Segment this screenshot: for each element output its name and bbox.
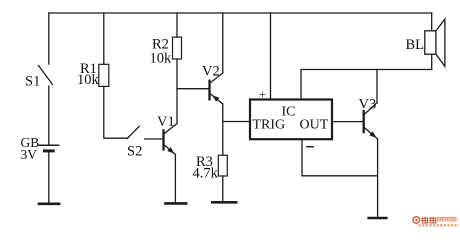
svg-text:BL: BL <box>406 37 425 53</box>
svg-text:OUT: OUT <box>300 117 329 132</box>
svg-text:+: + <box>259 87 266 102</box>
svg-text:V3: V3 <box>359 97 377 113</box>
svg-text:S1: S1 <box>25 74 40 90</box>
svg-text:4.7k: 4.7k <box>193 166 219 182</box>
svg-text:V1: V1 <box>157 114 175 130</box>
svg-text:TRIG: TRIG <box>253 117 286 132</box>
svg-text:S2: S2 <box>127 144 142 160</box>
svg-text:10k: 10k <box>77 72 100 88</box>
svg-text:V2: V2 <box>202 64 220 80</box>
svg-text:3V: 3V <box>21 147 38 162</box>
svg-text:10k: 10k <box>150 51 173 67</box>
